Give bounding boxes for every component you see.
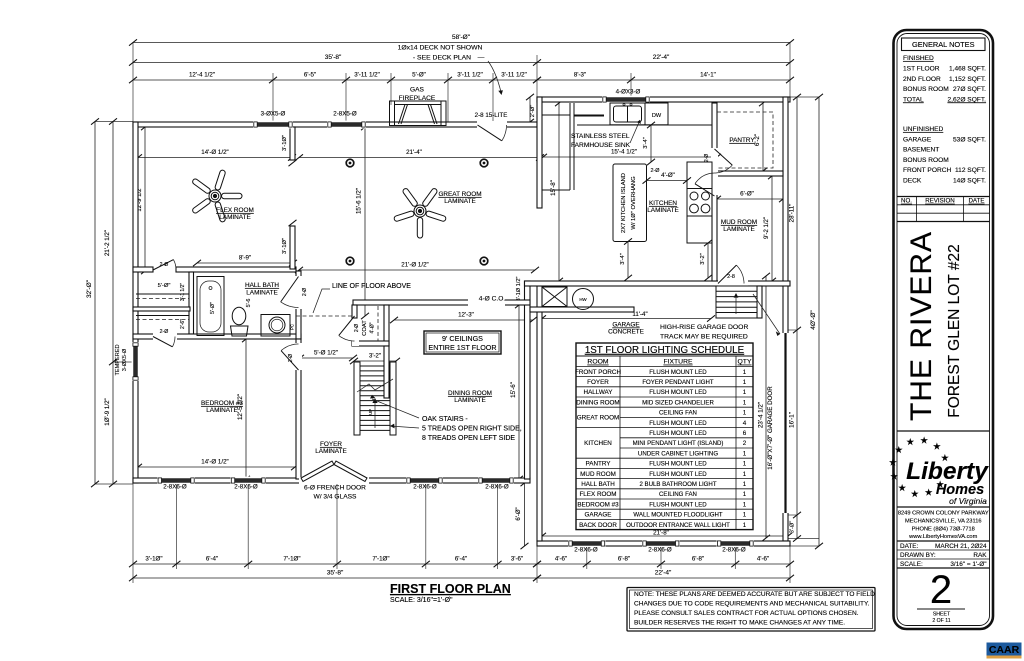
svg-text:MID SIZED CHANDELIER: MID SIZED CHANDELIER [642,399,714,406]
coat closet [352,305,357,318]
attic box [542,287,567,307]
svg-text:58'-Ø": 58'-Ø" [452,34,471,41]
svg-text:15'-6 1/2": 15'-6 1/2" [356,188,363,214]
right dim col 40ft [815,94,823,549]
dim 21-8 garage [538,533,792,539]
dim 14-0.5 bedroom [134,464,299,470]
windows bottom wall bedroom [157,477,195,485]
dim 8-9 hall bath [193,260,297,266]
svg-text:5 TREADS OPEN RIGHT SIDE,: 5 TREADS OPEN RIGHT SIDE, [422,426,522,433]
svg-text:SHEET: SHEET [933,612,951,618]
basement stair right wall [757,286,762,318]
svg-text:1: 1 [743,369,747,376]
svg-text:Liberty: Liberty [906,458,989,485]
svg-text:16'-1": 16'-1" [789,412,796,428]
exterior walls left wing [133,122,537,127]
svg-text:5'-Ø": 5'-Ø" [210,302,216,314]
svg-text:3'-1Ø": 3'-1Ø" [282,135,288,151]
bottom-right dim rows [533,561,794,567]
svg-text:GARAGE: GARAGE [612,322,639,329]
svg-text:1Ø'-9 1/2": 1Ø'-9 1/2" [104,398,111,425]
svg-text:9' CEILINGS: 9' CEILINGS [442,334,483,343]
svg-text:6: 6 [743,430,747,437]
svg-text:LINE OF FLOOR ABOVE: LINE OF FLOOR ABOVE [332,283,411,290]
svg-text:W/ 1Ø" OVERHANG: W/ 1Ø" OVERHANG [631,176,637,230]
svg-text:3'-6": 3'-6" [511,556,523,563]
svg-text:CAAR: CAAR [989,644,1020,656]
svg-text:2-Ø: 2-Ø [651,168,661,174]
svg-text:MARCH 21, 2Ø24: MARCH 21, 2Ø24 [935,543,987,550]
french door [301,461,334,482]
garage hall wall [530,307,634,312]
svg-text:21'-4": 21'-4" [406,149,422,156]
svg-text:- SEE DECK PLAN: - SEE DECK PLAN [413,55,471,62]
dim 4-0 island gap [643,177,692,183]
svg-text:14'-1": 14'-1" [700,72,716,79]
svg-text:PANTRY: PANTRY [729,137,755,144]
svg-text:12'-5 1/2": 12'-5 1/2" [237,394,244,420]
svg-text:FLUSH MOUNT LED: FLUSH MOUNT LED [649,389,707,396]
svg-text:2,62Ø SQFT.: 2,62Ø SQFT. [948,96,987,103]
extension lines [132,42,134,122]
closet shelves [136,293,189,295]
svg-text:1ST FLOOR LIGHTING SCHEDULE: 1ST FLOOR LIGHTING SCHEDULE [585,345,745,356]
window 2-8X5-0 great [327,121,366,129]
dim 3-4 island bottom vertical [624,238,632,281]
svg-text:CEILING FAN: CEILING FAN [659,491,697,498]
svg-text:WALL MOUNTED FLOODLIGHT: WALL MOUNTED FLOODLIGHT [633,512,723,519]
door: bedroom [281,351,298,370]
svg-text:BUILDER RESERVES THE RIGHT TO: BUILDER RESERVES THE RIGHT TO MAKE CHANG… [634,620,845,627]
svg-text:TRACK MAY BE REQUIRED: TRACK MAY BE REQUIRED [660,334,748,341]
dim 15-6 dining vertical [515,302,523,482]
svg-text:FLUSH MOUNT LED: FLUSH MOUNT LED [649,461,707,468]
svg-text:2-Ø: 2-Ø [302,288,308,296]
opening: mud-garage door [718,280,748,287]
svg-text:28'-11": 28'-11" [789,204,796,223]
C.O. wall dining [353,300,530,305]
opening: C.O. 4-0 [468,299,505,306]
garage inner dim 23-4.5 [762,273,770,541]
svg-text:DRAWN BY:: DRAWN BY: [900,552,936,559]
closet wall east [189,272,194,334]
svg-text:3'-11 1/2": 3'-11 1/2" [501,72,527,79]
svg-text:35'-8": 35'-8" [325,54,342,61]
stair break line [357,379,393,392]
svg-text:FRONT PORCH: FRONT PORCH [903,167,951,174]
dim 12-9.5 flex vertical [141,124,149,274]
svg-text:15'-6": 15'-6" [510,382,517,398]
svg-text:UP: UP [368,409,373,415]
svg-text:★: ★ [924,488,933,499]
svg-text:8'-9": 8'-9" [239,255,251,262]
svg-text:★: ★ [933,442,942,453]
svg-text:DECK: DECK [903,178,922,185]
left dim col segments [109,118,117,487]
svg-text:of Virginia: of Virginia [949,496,987,506]
window 3-0X5-0 flex [253,121,293,129]
dim 3-4 counter vertical [647,122,655,165]
svg-text:www.LibertyHomesVA.com: www.LibertyHomesVA.com [908,534,977,540]
svg-text:5'-Ø 1/2": 5'-Ø 1/2" [314,350,338,357]
svg-text:2-8X6-Ø: 2-8X6-Ø [234,484,258,491]
svg-text:1: 1 [743,471,747,478]
opening: pantry door + mud door [711,148,718,195]
svg-text:3/16" = 1'-Ø": 3/16" = 1'-Ø" [950,561,986,568]
dim row 58ft [129,39,794,45]
toilet [232,307,246,325]
svg-text:BASEMENT: BASEMENT [903,147,939,154]
svg-text:12'-4 1/2": 12'-4 1/2" [189,72,215,79]
dishwasher [645,103,668,125]
svg-text:1ST FLOOR: 1ST FLOOR [903,66,940,73]
svg-text:27Ø SQFT.: 27Ø SQFT. [953,86,986,93]
svg-text:3'-4": 3'-4" [620,253,626,265]
island [613,164,647,242]
svg-text:2'-Ø": 2'-Ø" [530,105,536,117]
svg-text:LAMINATE: LAMINATE [246,290,278,297]
opening: bath door [295,276,302,309]
windows bottom wall dining [406,477,443,485]
svg-text:LAMINATE: LAMINATE [444,198,476,205]
svg-text:2-Ø: 2-Ø [160,262,169,268]
svg-text:ROOM: ROOM [587,359,608,366]
svg-text:6'-8": 6'-8" [692,556,704,563]
svg-text:FINISHED: FINISHED [903,55,934,62]
svg-text:PLEASE CONSULT SALES CONTRACT: PLEASE CONSULT SALES CONTRACT FOR ACTUAL… [634,610,859,617]
line of floor above [296,315,352,317]
svg-text:HIGH-RISE GARAGE DOOR: HIGH-RISE GARAGE DOOR [660,324,748,331]
hall bath tub [197,277,224,336]
title block frame [894,30,994,629]
svg-text:2ND FLOOR: 2ND FLOOR [903,76,941,83]
svg-text:MUD ROOM: MUD ROOM [721,219,757,226]
svg-text:6'-Ø": 6'-Ø" [516,507,522,520]
svg-text:3'-2": 3'-2" [700,253,706,265]
left dim col 32ft [91,118,99,487]
svg-text:FOREST GLEN LOT #22: FOREST GLEN LOT #22 [946,244,963,417]
note box [627,588,875,632]
svg-text:2: 2 [743,440,747,447]
svg-text:DATE: DATE [968,198,984,205]
svg-text:1: 1 [743,450,747,457]
kitchen counters [569,103,571,190]
dim 15-4.5 kitchen [539,154,721,160]
svg-text:DW: DW [652,113,662,119]
svg-text:3'-4": 3'-4" [643,137,649,149]
address block [897,506,990,508]
svg-text:6'-4": 6'-4" [455,556,467,563]
svg-text:NOTE: THESE PLANS ARE DEEMED A: NOTE: THESE PLANS ARE DEEMED ACCURATE BU… [634,591,875,598]
svg-text:GARAGE: GARAGE [585,512,612,519]
svg-text:14'-Ø 1/2": 14'-Ø 1/2" [201,149,228,156]
svg-text:LAMINATE: LAMINATE [219,214,251,221]
svg-text:14'-Ø 1/2": 14'-Ø 1/2" [201,459,228,466]
svg-text:FLUSH MOUNT LED: FLUSH MOUNT LED [649,420,707,427]
svg-text:CONCRETE: CONCRETE [608,329,644,336]
door: flex room [153,260,174,270]
svg-text:5'-Ø": 5'-Ø" [158,283,171,289]
dim 15-6.5 vertical [361,124,369,319]
svg-text:GENERAL NOTES: GENERAL NOTES [912,40,975,49]
vanity [261,315,290,337]
dim 3-2 stairs [350,358,400,364]
svg-text:KITCHEN: KITCHEN [649,200,677,207]
dining/garage wall [525,281,531,479]
svg-text:2-8X6-Ø: 2-8X6-Ø [648,547,672,554]
svg-text:COAT: COAT [362,320,368,336]
svg-text:FOYER PENDANT LIGHT: FOYER PENDANT LIGHT [642,379,714,386]
pantry shelves [717,112,773,168]
svg-text:2-8X6-Ø: 2-8X6-Ø [722,547,746,554]
svg-text:REVISION: REVISION [925,198,955,205]
svg-text:ENTIRE 1ST FLOOR: ENTIRE 1ST FLOOR [428,343,496,352]
svg-text:2-8: 2-8 [727,274,735,280]
svg-text:LAMINATE: LAMINATE [647,207,679,214]
svg-text:FOYER: FOYER [320,441,342,448]
svg-text:3'-Ø": 3'-Ø" [790,521,796,533]
svg-text:3'-2": 3'-2" [369,354,381,360]
svg-text:HW: HW [579,297,587,302]
svg-text:CHANGES DUE TO CODE REQUIREMEN: CHANGES DUE TO CODE REQUIREMENTS AND MEC… [634,601,870,608]
svg-text:LAMINATE: LAMINATE [206,407,238,414]
dim 6-0 mud room [713,196,787,202]
svg-text:2: 2 [930,568,952,612]
svg-text:35'-8": 35'-8" [327,570,344,577]
svg-text:★: ★ [890,471,899,482]
door: mud-garage [718,265,736,283]
svg-text:BEDROOM #3: BEDROOM #3 [201,400,243,407]
dim 12-5.5 bedroom vertical [242,336,250,482]
svg-text:FARMHOUSE SINK: FARMHOUSE SINK [571,142,631,149]
dim 3-2 kitchen-garage vertical [704,240,712,281]
svg-text:2 BULB BATHROOM LIGHT: 2 BULB BATHROOM LIGHT [639,481,716,488]
dim row 35-8 / 22-4 [129,59,794,65]
svg-text:UNFINISHED: UNFINISHED [903,126,944,133]
svg-text:FLUSH MOUNT LED: FLUSH MOUNT LED [649,369,707,376]
svg-text:5'-Ø": 5'-Ø" [412,72,426,79]
svg-text:W/ 3/4 GLASS: W/ 3/4 GLASS [314,494,357,501]
svg-text:BEDROOM #3: BEDROOM #3 [577,501,619,508]
svg-text:GAS: GAS [410,87,425,94]
door: coat [339,316,355,335]
pantry/mud divider [712,171,783,176]
door: hall bath [281,277,299,302]
svg-text:1: 1 [743,501,747,508]
led lights great room [346,159,354,167]
svg-text:BACK DOOR: BACK DOOR [579,522,617,529]
liberty logo divider [897,430,990,432]
svg-text:4'-Ø": 4'-Ø" [370,322,376,333]
general notes header [902,38,986,51]
svg-text:★: ★ [906,437,915,448]
svg-text:1Øx14 DECK NOT SHOWN: 1Øx14 DECK NOT SHOWN [398,45,483,52]
door: closet lower (to bedroom) [153,337,172,347]
kitchen-pantry wall [712,103,717,281]
svg-text:CEILING FAN: CEILING FAN [659,410,697,417]
svg-text:4Ø'-Ø": 4Ø'-Ø" [810,310,817,330]
svg-text:6'-8": 6'-8" [618,556,630,563]
dim 5-0.5 hall [296,355,357,361]
door: back 15-lite [478,125,502,141]
svg-text:2-Ø: 2-Ø [354,324,360,332]
svg-text:3'-11 1/2": 3'-11 1/2" [457,72,483,79]
dim 21-4 great room [295,154,544,160]
revision table [897,196,990,198]
svg-text:3'-11 1/2": 3'-11 1/2" [354,72,380,79]
svg-text:2X7 KITCHEN ISLAND: 2X7 KITCHEN ISLAND [621,173,627,233]
svg-text:14Ø SQFT.: 14Ø SQFT. [953,178,986,185]
fans [192,169,242,222]
svg-text:PC: PC [290,324,295,330]
svg-text:1: 1 [743,399,747,406]
svg-text:2-8X6-Ø: 2-8X6-Ø [413,484,437,491]
opening: back door 15-lite [477,121,507,128]
kitchen sink [610,103,645,125]
closet divider [133,307,190,311]
svg-text:16'-Ø"X7'-Ø" GARAGE DOOR: 16'-Ø"X7'-Ø" GARAGE DOOR [767,386,774,470]
dim 11-4 garage hall [538,315,715,321]
svg-text:KITCHEN: KITCHEN [584,440,612,447]
svg-text:MUD ROOM: MUD ROOM [580,471,616,478]
bedroom east wall [296,339,301,479]
svg-text:FOYER: FOYER [587,379,609,386]
svg-text:2-8X6-Ø: 2-8X6-Ø [163,484,187,491]
svg-text:FRONT PORCH: FRONT PORCH [575,369,622,376]
opening: coat door [352,326,359,346]
svg-text:SCALE:: SCALE: [900,561,923,568]
lighting schedule table [575,343,753,530]
svg-text:15'-4 1/2": 15'-4 1/2" [611,149,637,156]
water heater [573,289,594,310]
svg-text:FLUSH MOUNT LED: FLUSH MOUNT LED [649,501,707,508]
svg-text:THE RIVERA: THE RIVERA [905,231,938,421]
CAAR logo [987,643,1022,656]
dim 12-3 dining [390,317,537,323]
svg-text:6'-Ø": 6'-Ø" [740,191,754,198]
svg-text:★: ★ [911,489,920,500]
windows garage front [568,540,606,548]
svg-text:9'-2 1/2": 9'-2 1/2" [764,217,770,239]
svg-text:LAMINATE: LAMINATE [454,397,486,404]
svg-text:—: — [478,55,485,62]
svg-text:★: ★ [920,436,929,447]
bath east wall [296,271,301,339]
svg-text:MINI PENDANT LIGHT (ISLAND): MINI PENDANT LIGHT (ISLAND) [633,440,724,447]
svg-text:21'-Ø 1/2": 21'-Ø 1/2" [401,262,428,269]
svg-text:21'-2 1/2": 21'-2 1/2" [104,230,111,256]
svg-text:PHONE (8Ø4) 73Ø-7718: PHONE (8Ø4) 73Ø-7718 [912,527,975,533]
svg-text:4'-6": 4'-6" [757,556,769,563]
svg-text:7'-1Ø": 7'-1Ø" [283,556,300,563]
opening: french door [299,477,369,484]
svg-text:QTY: QTY [738,359,752,366]
door: pantry [715,149,733,165]
svg-text:2-8X6-Ø: 2-8X6-Ø [485,484,509,491]
svg-text:BONUS ROOM: BONUS ROOM [903,157,949,164]
fireplace [390,101,447,126]
dim 2-0 kitchen offset vertical [526,94,534,125]
svg-text:LAMINATE: LAMINATE [723,226,755,233]
svg-text:3'-1Ø": 3'-1Ø" [282,238,288,254]
svg-text:GREAT ROOM: GREAT ROOM [438,191,481,198]
svg-text:1: 1 [743,481,747,488]
svg-text:32'-Ø": 32'-Ø" [86,279,93,298]
svg-text:GARAGE: GARAGE [903,136,932,143]
svg-text:1: 1 [743,512,747,519]
9ft ceilings box [424,331,501,354]
svg-text:112 SQFT.: 112 SQFT. [955,167,986,174]
svg-text:SCALE: 3/16"=1'-Ø": SCALE: 3/16"=1'-Ø" [390,597,453,604]
svg-text:22'-4": 22'-4" [653,54,670,61]
svg-text:3'-1Ø": 3'-1Ø" [145,556,162,563]
main stairs [354,362,396,435]
svg-text:2'-6": 2'-6" [180,319,186,329]
svg-text:2-8 15-LITE: 2-8 15-LITE [475,112,508,119]
dim 15-8 kitchen vertical [555,100,563,284]
svg-text:4-Ø C.O.: 4-Ø C.O. [479,296,506,303]
svg-text:6'-5": 6'-5" [304,72,316,79]
svg-text:NO.: NO. [901,198,912,205]
date/drawn/scale rows [897,540,990,542]
bottom-left dim rows [129,561,541,567]
dim 6-0 porch vertical [521,480,529,549]
svg-text:HALL BATH: HALL BATH [581,481,615,488]
svg-text:LAMINATE: LAMINATE [315,448,347,455]
svg-text:11'-4": 11'-4" [632,311,647,318]
svg-text:3-ØX5-Ø: 3-ØX5-Ø [261,111,286,118]
svg-text:8 TREADS OPEN LEFT SIDE: 8 TREADS OPEN LEFT SIDE [422,435,515,442]
dim 21-0.5 great room [295,267,539,273]
svg-text:★: ★ [889,458,898,469]
window 4-0X3-0 kitchen [602,96,650,104]
svg-text:23'-4 1/2": 23'-4 1/2" [758,402,765,428]
svg-text:FLEX ROOM: FLEX ROOM [579,491,616,498]
opening: bedroom door [295,343,302,370]
svg-text:TEMPERED: TEMPERED [115,344,121,375]
flex/bath wall [133,267,153,272]
svg-text:15'-8": 15'-8" [550,180,557,196]
svg-text:FIXTURE: FIXTURE [663,359,693,366]
svg-text:OAK STAIRS -: OAK STAIRS - [422,416,468,423]
svg-text:1: 1 [743,522,747,529]
svg-text:HALL BATH: HALL BATH [245,282,279,289]
svg-text:2-Ø: 2-Ø [704,154,710,162]
great room stubs [290,127,295,160]
svg-text:6'-2": 6'-2" [755,134,761,146]
svg-text:RAK: RAK [973,552,987,559]
svg-text:DINING ROOM: DINING ROOM [448,390,492,397]
svg-text:4-ØX3-Ø: 4-ØX3-Ø [616,89,641,96]
door: mud from kitchen [695,184,715,196]
dim row top segments [129,77,541,83]
svg-text:4: 4 [743,420,747,427]
svg-text:FLUSH MOUNT LED: FLUSH MOUNT LED [649,430,707,437]
svg-text:★: ★ [895,445,904,456]
basement stairs [716,286,757,318]
svg-text:1,152 SQFT.: 1,152 SQFT. [949,76,986,83]
svg-text:BONUS ROOM: BONUS ROOM [903,86,949,93]
svg-text:OUTDOOR ENTRANCE WALL LIGHT: OUTDOOR ENTRANCE WALL LIGHT [626,522,730,529]
svg-text:STAINLESS STEEL: STAINLESS STEEL [571,133,630,140]
svg-text:22'-4": 22'-4" [655,570,672,577]
svg-text:FIREPLACE: FIREPLACE [399,95,436,102]
svg-text:UNDER CABINET LIGHTING: UNDER CABINET LIGHTING [638,450,718,457]
bath/bedroom wall [133,334,301,339]
svg-text:DINING ROOM: DINING ROOM [576,399,619,406]
svg-text:GREAT ROOM: GREAT ROOM [577,415,619,422]
svg-text:FLUSH MOUNT LED: FLUSH MOUNT LED [649,471,707,478]
